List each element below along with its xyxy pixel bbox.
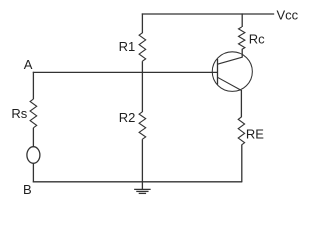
resistor RE — [238, 117, 244, 145]
resistor Rc — [239, 27, 245, 50]
transistor Q1 — [212, 52, 252, 92]
wire R1-R2 middle segment — [141, 61, 143, 112]
resistor R2 — [139, 112, 146, 139]
wire R1 top lead — [141, 13, 143, 33]
wire source to node B — [32, 163, 34, 182]
ground — [134, 189, 151, 193]
wire Vcc top rail — [142, 13, 274, 15]
wire Rc top lead — [241, 13, 243, 27]
svg-text:Rs: Rs — [11, 106, 27, 121]
svg-text:R2: R2 — [119, 110, 136, 125]
svg-text:Rc: Rc — [249, 32, 265, 47]
wire node A horizontal to base — [33, 71, 218, 73]
source (signal source) — [27, 147, 40, 164]
wire RE bottom lead — [241, 145, 243, 182]
svg-text:Vcc: Vcc — [277, 8, 299, 23]
svg-text:A: A — [24, 57, 33, 72]
wire Rs top lead — [32, 72, 34, 99]
svg-text:B: B — [23, 182, 32, 197]
wire R2 bottom lead to ground — [141, 139, 143, 189]
resistor R1 — [139, 33, 146, 61]
wire emitter lead — [240, 90, 242, 117]
wire Rs to source — [32, 128, 34, 147]
svg-text:R1: R1 — [119, 39, 136, 54]
wire collector lead — [241, 50, 243, 58]
wire bottom rail — [33, 181, 242, 183]
svg-text:RE: RE — [246, 126, 264, 141]
resistor Rs — [30, 99, 37, 128]
